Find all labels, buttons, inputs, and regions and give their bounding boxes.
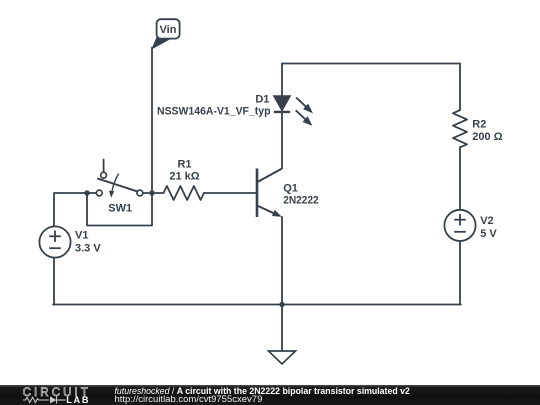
wire Vin vertical bbox=[151, 48, 153, 194]
wire switch to R1 bbox=[143, 192, 164, 194]
ground bbox=[269, 351, 296, 364]
resistor R1 bbox=[164, 186, 205, 200]
wire V1 bottom bbox=[53, 258, 55, 305]
svg-text:3.3 V: 3.3 V bbox=[75, 242, 101, 254]
wire top rail bbox=[282, 63, 460, 65]
wire right column middle bbox=[459, 147, 461, 210]
switch throw terminal top bbox=[101, 172, 107, 178]
svg-text:D1: D1 bbox=[255, 93, 269, 105]
resistor R2 bbox=[453, 110, 467, 147]
junction node at ground bbox=[279, 302, 284, 307]
node label Vin bbox=[152, 19, 179, 48]
emitter stroke bbox=[257, 206, 278, 216]
svg-text:Q1: Q1 bbox=[283, 183, 298, 195]
wire R1 to base bbox=[204, 192, 256, 194]
svg-text:V1: V1 bbox=[75, 230, 88, 242]
svg-text:NSSW146A-V1_VF_typ: NSSW146A-V1_VF_typ bbox=[157, 105, 271, 117]
switch terminal right bbox=[137, 190, 143, 196]
svg-text:200 Ω: 200 Ω bbox=[472, 131, 502, 143]
LED cathode bar bbox=[274, 111, 290, 113]
wire switch top stub bbox=[103, 160, 105, 173]
wire collector column bbox=[281, 64, 283, 169]
transistor Q1 bbox=[257, 169, 319, 220]
footer title line bbox=[115, 386, 540, 396]
footer bar bbox=[0, 385, 540, 405]
footer url line bbox=[115, 394, 540, 405]
svg-text:R2: R2 bbox=[472, 118, 486, 130]
svg-text:5 V: 5 V bbox=[480, 228, 497, 240]
wire bottom rail bbox=[53, 304, 461, 306]
LED D1 bbox=[157, 93, 315, 128]
LED triangle bbox=[273, 96, 290, 111]
junction node at switch left bbox=[84, 190, 89, 195]
svg-text:Vin: Vin bbox=[160, 24, 177, 36]
wire right column lower bbox=[459, 241, 461, 305]
collector stroke bbox=[257, 169, 282, 183]
voltage source V1 bbox=[39, 226, 101, 257]
svg-text:V2: V2 bbox=[480, 215, 493, 227]
wire right column upper bbox=[459, 64, 461, 111]
switch SW1 bbox=[96, 172, 142, 214]
switch arm bbox=[97, 178, 137, 191]
LED light arrow 2 bbox=[296, 110, 306, 119]
switch terminal left bbox=[96, 190, 102, 196]
svg-text:LAB: LAB bbox=[66, 395, 90, 405]
wire emitter to ground bbox=[281, 217, 283, 351]
svg-text:21 kΩ: 21 kΩ bbox=[169, 171, 199, 183]
switch action arrow bbox=[112, 174, 119, 193]
LED light arrow 1 bbox=[296, 98, 306, 107]
base bar bbox=[256, 169, 259, 218]
junction node at switch right / Vin bbox=[149, 190, 154, 195]
svg-text:SW1: SW1 bbox=[108, 203, 132, 215]
CircuitLab logo bbox=[20, 385, 100, 405]
svg-text:R1: R1 bbox=[177, 158, 191, 170]
voltage source V2 bbox=[444, 210, 497, 241]
wire V1 top to switch bbox=[54, 193, 96, 227]
wire bypass loop bbox=[87, 193, 152, 226]
emitter arrowhead bbox=[272, 210, 283, 220]
svg-text:2N2222: 2N2222 bbox=[283, 195, 319, 207]
